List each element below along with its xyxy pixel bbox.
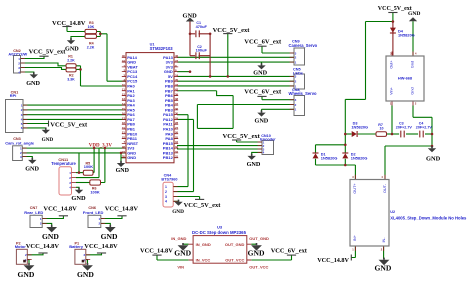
svg-text:1N5820G: 1N5820G: [398, 33, 415, 38]
svg-text:Temperature: Temperature: [51, 161, 76, 166]
svg-text:25: 25: [175, 135, 179, 139]
svg-text:VCC_6V_ext: VCC_6V_ext: [244, 88, 282, 95]
svg-text:DC-DC Step down MP2365: DC-DC Step down MP2365: [192, 230, 247, 235]
svg-text:1N5820G: 1N5820G: [351, 155, 368, 160]
svg-text:IN_GND: IN_GND: [171, 236, 186, 241]
svg-text:Out+: Out+: [390, 60, 394, 69]
svg-text:VCC_5V_ext: VCC_5V_ext: [378, 6, 412, 12]
svg-text:1N5820G: 1N5820G: [351, 124, 368, 129]
svg-text:47: 47: [175, 59, 179, 63]
svg-text:GND: GND: [248, 249, 265, 258]
svg-text:12: 12: [122, 92, 126, 96]
svg-text:GND: GND: [71, 195, 86, 202]
svg-text:43: 43: [175, 83, 179, 87]
svg-text:10K: 10K: [88, 25, 95, 29]
svg-text:VCC_5V_ext: VCC_5V_ext: [223, 133, 261, 140]
svg-text:XL4005_Step_Down_Module No Hol: XL4005_Step_Down_Module No Holes: [390, 215, 467, 220]
svg-text:11: 11: [122, 88, 125, 92]
svg-text:Gnd: Gnd: [411, 61, 415, 68]
svg-text:GND: GND: [127, 155, 136, 160]
svg-text:21: 21: [122, 131, 126, 135]
svg-text:48: 48: [122, 145, 126, 149]
svg-text:40: 40: [122, 54, 126, 58]
svg-text:IN+: IN+: [353, 234, 357, 241]
svg-text:OUT_GND: OUT_GND: [225, 242, 245, 247]
svg-text:34: 34: [175, 140, 179, 144]
svg-text:16: 16: [122, 112, 126, 116]
svg-text:Wheels_Servo: Wheels_Servo: [289, 91, 317, 96]
svg-text:VCC_14.8V: VCC_14.8V: [140, 247, 173, 254]
svg-text:IN_VCC: IN_VCC: [196, 258, 211, 263]
svg-text:Cam_rot_angle: Cam_rot_angle: [5, 140, 35, 145]
svg-text:29: 29: [175, 116, 179, 120]
svg-text:100uF: 100uF: [196, 48, 208, 53]
svg-text:GND: GND: [101, 232, 118, 241]
svg-text:13: 13: [122, 97, 126, 101]
svg-text:VCC_6V_ext: VCC_6V_ext: [244, 39, 282, 46]
svg-text:3.3K: 3.3K: [67, 78, 75, 82]
svg-text:VCC_5V_ext: VCC_5V_ext: [29, 49, 67, 56]
svg-text:GND: GND: [25, 166, 39, 173]
svg-text:26: 26: [175, 131, 179, 135]
svg-text:OUT-: OUT-: [383, 183, 387, 193]
svg-text:Encoder: Encoder: [260, 137, 276, 142]
svg-text:19: 19: [122, 126, 126, 130]
svg-text:VIN: VIN: [177, 265, 184, 270]
svg-text:470uF: 470uF: [196, 24, 208, 29]
svg-text:30: 30: [175, 112, 179, 116]
svg-text:VCC_14.8V: VCC_14.8V: [84, 243, 118, 250]
svg-text:20F×2.7V: 20F×2.7V: [396, 125, 413, 129]
svg-text:HW-668: HW-668: [398, 75, 413, 80]
svg-text:STM32F103: STM32F103: [150, 46, 174, 51]
svg-text:4: 4: [165, 200, 167, 204]
svg-text:33: 33: [175, 145, 179, 149]
svg-text:17: 17: [122, 116, 126, 120]
svg-text:U2: U2: [390, 210, 395, 214]
svg-text:GND: GND: [375, 263, 392, 272]
svg-text:100K: 100K: [84, 164, 93, 169]
svg-text:3: 3: [165, 195, 167, 199]
svg-text:VCC_5V_ext: VCC_5V_ext: [184, 202, 222, 209]
svg-text:PB12: PB12: [163, 155, 174, 160]
svg-text:IN_GND: IN_GND: [196, 242, 211, 247]
svg-text:VCC_14.8V: VCC_14.8V: [26, 243, 60, 250]
svg-text:10: 10: [380, 127, 384, 131]
svg-text:28: 28: [175, 121, 179, 125]
svg-text:GND: GND: [26, 80, 40, 87]
svg-text:20F×2.7V: 20F×2.7V: [416, 125, 433, 129]
svg-text:GND: GND: [42, 137, 54, 143]
svg-text:Vin+: Vin+: [390, 86, 394, 94]
svg-text:Gnd: Gnd: [411, 87, 415, 94]
svg-text:GND: GND: [77, 270, 94, 279]
svg-text:Battery: Battery: [69, 244, 84, 249]
svg-text:32: 32: [175, 150, 179, 154]
svg-text:GND: GND: [174, 249, 191, 258]
svg-text:GND: GND: [116, 168, 130, 174]
svg-text:22: 22: [122, 135, 126, 139]
svg-text:2.2K: 2.2K: [87, 46, 95, 50]
svg-text:GND: GND: [65, 46, 79, 53]
svg-text:VCC_14.8V: VCC_14.8V: [52, 20, 86, 27]
svg-text:LEDs: LEDs: [293, 70, 303, 75]
svg-text:36: 36: [175, 107, 179, 111]
svg-text:VCC_14.8V: VCC_14.8V: [43, 205, 77, 212]
svg-text:VCC_14.8V: VCC_14.8V: [105, 205, 139, 212]
svg-text:Rear_LED: Rear_LED: [24, 210, 43, 215]
svg-text:RPi: RPi: [10, 93, 16, 98]
svg-text:1N5820G: 1N5820G: [321, 155, 338, 160]
svg-text:23: 23: [122, 150, 126, 154]
svg-text:A02YYUW: A02YYUW: [8, 52, 27, 57]
svg-text:27: 27: [175, 126, 179, 130]
svg-text:1: 1: [165, 185, 167, 189]
svg-text:OUT_GND: OUT_GND: [249, 236, 269, 241]
svg-text:2: 2: [165, 190, 167, 194]
svg-text:VCC_5V_ext: VCC_5V_ext: [50, 121, 88, 128]
svg-text:GND: GND: [18, 270, 35, 279]
svg-text:OUT_VCC: OUT_VCC: [249, 265, 268, 270]
svg-text:14: 14: [122, 102, 126, 106]
svg-text:GND: GND: [42, 232, 59, 241]
svg-text:42: 42: [175, 88, 179, 92]
svg-text:OUT+: OUT+: [353, 183, 357, 194]
svg-text:46: 46: [175, 54, 179, 58]
svg-text:GND: GND: [426, 155, 441, 162]
svg-text:IN-: IN-: [382, 237, 386, 243]
svg-text:15: 15: [122, 107, 126, 111]
svg-text:Front_LED: Front_LED: [83, 210, 104, 215]
svg-text:OUT_VCC: OUT_VCC: [225, 258, 244, 263]
svg-text:18: 18: [122, 121, 126, 125]
svg-text:VDD_3.3V: VDD_3.3V: [89, 144, 113, 149]
svg-text:24: 24: [175, 73, 179, 77]
svg-text:44: 44: [122, 59, 126, 63]
svg-text:GND: GND: [255, 118, 269, 125]
svg-text:31: 31: [175, 155, 179, 159]
svg-text:VCC_14.8V: VCC_14.8V: [317, 257, 349, 264]
svg-text:BTS7960: BTS7960: [161, 177, 177, 181]
svg-text:GND: GND: [247, 161, 261, 168]
svg-text:38: 38: [175, 97, 179, 101]
svg-text:GND: GND: [172, 209, 184, 215]
svg-text:U3: U3: [217, 225, 223, 230]
svg-text:35: 35: [122, 155, 126, 159]
svg-text:39: 39: [175, 92, 179, 96]
svg-text:10: 10: [122, 83, 126, 87]
svg-text:GND: GND: [408, 11, 420, 17]
svg-text:2.2K: 2.2K: [67, 59, 75, 63]
svg-text:100K: 100K: [90, 189, 99, 194]
svg-text:Motor: Motor: [15, 244, 27, 249]
svg-text:VCC_6V_ext: VCC_6V_ext: [271, 247, 308, 254]
svg-text:37: 37: [175, 102, 179, 106]
svg-text:Camera_Servo: Camera_Servo: [289, 43, 318, 48]
svg-text:45: 45: [175, 78, 179, 82]
svg-text:GND: GND: [253, 69, 267, 76]
